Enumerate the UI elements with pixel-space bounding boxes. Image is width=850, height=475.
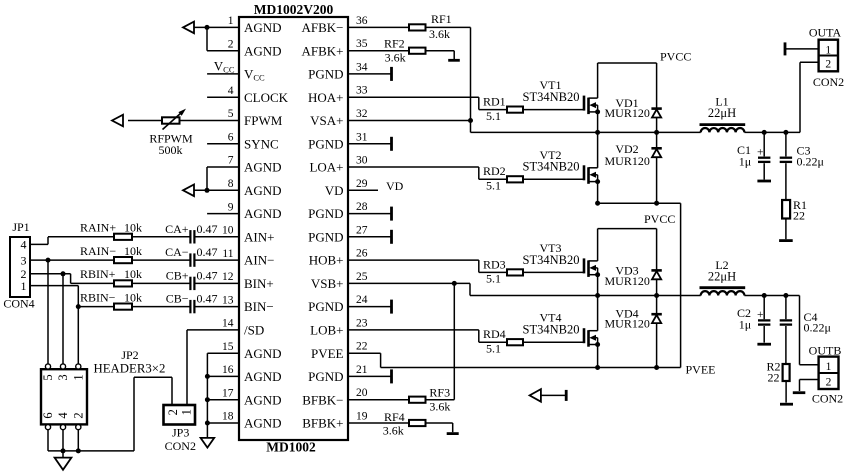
svg-text:17: 17 — [222, 387, 234, 399]
svg-text:AFBK−: AFBK− — [301, 20, 343, 35]
svg-text:22μH: 22μH — [708, 270, 736, 284]
svg-text:PGND: PGND — [308, 369, 343, 384]
svg-text:RAIN+: RAIN+ — [80, 221, 116, 235]
svg-text:CB+: CB+ — [166, 268, 189, 282]
svg-text:PVCC: PVCC — [644, 212, 675, 226]
svg-text:RF2: RF2 — [384, 37, 405, 51]
svg-text:10: 10 — [222, 225, 234, 237]
svg-text:CB−: CB− — [166, 292, 189, 306]
svg-text:HEADER3×2: HEADER3×2 — [94, 361, 166, 375]
svg-text:31: 31 — [356, 131, 368, 143]
svg-text:4: 4 — [228, 85, 234, 97]
svg-text:AGND: AGND — [244, 346, 282, 361]
svg-text:MUR120: MUR120 — [605, 106, 650, 120]
svg-text:0.47: 0.47 — [197, 245, 218, 259]
svg-text:16: 16 — [222, 364, 234, 376]
svg-text:22: 22 — [356, 341, 368, 353]
svg-text:7: 7 — [228, 155, 234, 167]
svg-text:VD: VD — [325, 183, 344, 198]
svg-text:CA−: CA− — [165, 245, 189, 259]
svg-text:5: 5 — [41, 374, 55, 380]
svg-text:PVCC: PVCC — [660, 50, 691, 64]
svg-text:5.1: 5.1 — [486, 272, 501, 286]
svg-text:HOA+: HOA+ — [308, 90, 344, 105]
svg-text:3.6k: 3.6k — [429, 27, 450, 41]
svg-text:36: 36 — [356, 15, 368, 27]
svg-text:19: 19 — [356, 411, 368, 423]
svg-text:AGND: AGND — [244, 392, 282, 407]
svg-text:VSA+: VSA+ — [310, 113, 343, 128]
svg-text:MUR120: MUR120 — [605, 154, 650, 168]
svg-text:10k: 10k — [124, 244, 142, 258]
svg-text:0.22μ: 0.22μ — [804, 321, 831, 335]
svg-text:1: 1 — [825, 44, 831, 56]
svg-text:21: 21 — [356, 364, 368, 376]
svg-text:PGND: PGND — [308, 229, 343, 244]
svg-text:8: 8 — [228, 178, 234, 190]
svg-text:RD4: RD4 — [483, 327, 506, 341]
svg-text:25: 25 — [356, 271, 368, 283]
svg-text:5.1: 5.1 — [486, 179, 501, 193]
svg-text:PGND: PGND — [308, 67, 343, 82]
svg-text:CA+: CA+ — [165, 222, 189, 236]
svg-text:RF1: RF1 — [431, 12, 452, 26]
svg-text:20: 20 — [356, 387, 368, 399]
svg-text:12: 12 — [222, 271, 234, 283]
svg-text:2: 2 — [166, 409, 180, 415]
svg-text:2: 2 — [71, 412, 85, 418]
svg-text:0.47: 0.47 — [197, 268, 218, 282]
svg-text:BFBK+: BFBK+ — [302, 416, 343, 431]
svg-text:PGND: PGND — [308, 299, 343, 314]
svg-text:BIN+: BIN+ — [244, 276, 274, 291]
svg-text:0.22μ: 0.22μ — [797, 155, 824, 169]
svg-text:BIN−: BIN− — [244, 299, 274, 314]
svg-text:PVEE: PVEE — [311, 346, 344, 361]
svg-text:AGND: AGND — [244, 206, 282, 221]
svg-text:9: 9 — [228, 201, 234, 213]
svg-text:JP1: JP1 — [12, 220, 29, 234]
svg-text:ST34NB20: ST34NB20 — [523, 90, 580, 104]
svg-text:CON2: CON2 — [812, 392, 843, 406]
svg-text:10k: 10k — [124, 221, 142, 235]
svg-text:11: 11 — [222, 248, 233, 260]
svg-text:2: 2 — [228, 38, 234, 50]
svg-text:MD1002: MD1002 — [266, 440, 316, 455]
svg-text:AGND: AGND — [244, 160, 282, 175]
svg-text:AIN+: AIN+ — [244, 229, 274, 244]
svg-text:1μ: 1μ — [739, 155, 751, 169]
svg-text:JP2: JP2 — [121, 348, 138, 362]
svg-text:RF3: RF3 — [429, 386, 450, 400]
svg-text:RD1: RD1 — [483, 95, 506, 109]
svg-text:OUTA: OUTA — [809, 26, 842, 40]
svg-text:BFBK−: BFBK− — [302, 392, 343, 407]
svg-text:MUR120: MUR120 — [605, 274, 650, 288]
svg-text:0.47: 0.47 — [197, 292, 218, 306]
svg-text:15: 15 — [222, 341, 234, 353]
svg-text:+: + — [757, 309, 764, 321]
svg-text:1: 1 — [21, 279, 27, 293]
svg-text:RF4: RF4 — [384, 410, 405, 424]
svg-text:23: 23 — [356, 317, 368, 329]
svg-text:4: 4 — [56, 412, 70, 419]
svg-text:HOB+: HOB+ — [309, 253, 344, 268]
svg-text:3: 3 — [56, 374, 70, 380]
svg-text:AGND: AGND — [244, 416, 282, 431]
svg-text:AIN−: AIN− — [244, 253, 274, 268]
svg-text:AGND: AGND — [244, 43, 282, 58]
svg-text:RBIN+: RBIN+ — [80, 267, 116, 281]
svg-text:27: 27 — [356, 224, 368, 236]
svg-text:OUTB: OUTB — [809, 343, 842, 357]
svg-text:ST34NB20: ST34NB20 — [523, 160, 580, 174]
svg-text:28: 28 — [356, 201, 368, 213]
svg-text:ST34NB20: ST34NB20 — [523, 323, 580, 337]
svg-text:CON2: CON2 — [165, 439, 196, 453]
svg-text:CLOCK: CLOCK — [244, 90, 289, 105]
svg-text:3: 3 — [21, 253, 27, 267]
svg-text:34: 34 — [356, 61, 368, 73]
svg-text:VD: VD — [386, 179, 404, 193]
svg-text:RBIN−: RBIN− — [80, 290, 116, 304]
svg-text:CON4: CON4 — [3, 297, 34, 311]
svg-text:1: 1 — [71, 374, 85, 380]
svg-text:SYNC: SYNC — [244, 136, 279, 151]
svg-text:LOA+: LOA+ — [309, 160, 343, 175]
svg-text:3.6k: 3.6k — [385, 50, 406, 64]
svg-text:AGND: AGND — [244, 369, 282, 384]
svg-text:1μ: 1μ — [739, 318, 751, 332]
svg-text:0.47: 0.47 — [197, 222, 218, 236]
svg-text:6: 6 — [228, 132, 234, 144]
svg-text:35: 35 — [356, 38, 368, 50]
svg-text:13: 13 — [222, 294, 234, 306]
svg-text:26: 26 — [356, 248, 368, 260]
svg-text:3.6k: 3.6k — [429, 400, 450, 414]
svg-text:RD2: RD2 — [483, 164, 506, 178]
svg-text:6: 6 — [41, 412, 55, 418]
svg-text:AFBK+: AFBK+ — [301, 43, 343, 58]
svg-text:+: + — [757, 146, 764, 158]
svg-text:29: 29 — [356, 178, 368, 190]
svg-text:PGND: PGND — [308, 206, 343, 221]
svg-text:5.1: 5.1 — [486, 341, 501, 355]
svg-text:5: 5 — [228, 108, 234, 120]
svg-text:JP3: JP3 — [172, 426, 189, 440]
svg-text:1: 1 — [826, 361, 832, 373]
svg-text:LOB+: LOB+ — [310, 323, 343, 338]
svg-text:22: 22 — [793, 209, 805, 223]
svg-text:30: 30 — [356, 155, 368, 167]
svg-text:3.6k: 3.6k — [383, 423, 404, 437]
svg-text:MUR120: MUR120 — [605, 317, 650, 331]
svg-text:ST34NB20: ST34NB20 — [523, 253, 580, 267]
svg-text:RAIN−: RAIN− — [80, 244, 116, 258]
svg-text:FPWM: FPWM — [244, 113, 283, 128]
svg-text:10k: 10k — [124, 290, 142, 304]
svg-text:1: 1 — [228, 15, 234, 27]
svg-text:18: 18 — [222, 411, 234, 423]
svg-text:14: 14 — [222, 318, 234, 330]
svg-text:CON2: CON2 — [813, 75, 844, 89]
svg-text:2: 2 — [825, 59, 831, 71]
svg-text:1: 1 — [180, 409, 194, 415]
svg-text:/SD: /SD — [244, 323, 264, 338]
svg-text:RD3: RD3 — [483, 257, 506, 271]
svg-text:32: 32 — [356, 108, 368, 120]
svg-text:10k: 10k — [124, 267, 142, 281]
svg-text:22: 22 — [768, 371, 780, 385]
svg-text:2: 2 — [826, 377, 832, 389]
svg-text:500k: 500k — [159, 143, 183, 157]
svg-text:PVEE: PVEE — [686, 363, 716, 377]
svg-text:5.1: 5.1 — [486, 109, 501, 123]
svg-text:PGND: PGND — [308, 136, 343, 151]
svg-text:22μH: 22μH — [708, 106, 736, 120]
svg-text:MD1002V200: MD1002V200 — [254, 2, 334, 17]
svg-text:VSB+: VSB+ — [311, 276, 344, 291]
svg-text:4: 4 — [21, 238, 27, 252]
svg-text:AGND: AGND — [244, 20, 282, 35]
svg-text:24: 24 — [356, 294, 368, 306]
svg-text:AGND: AGND — [244, 183, 282, 198]
svg-text:33: 33 — [356, 85, 368, 97]
